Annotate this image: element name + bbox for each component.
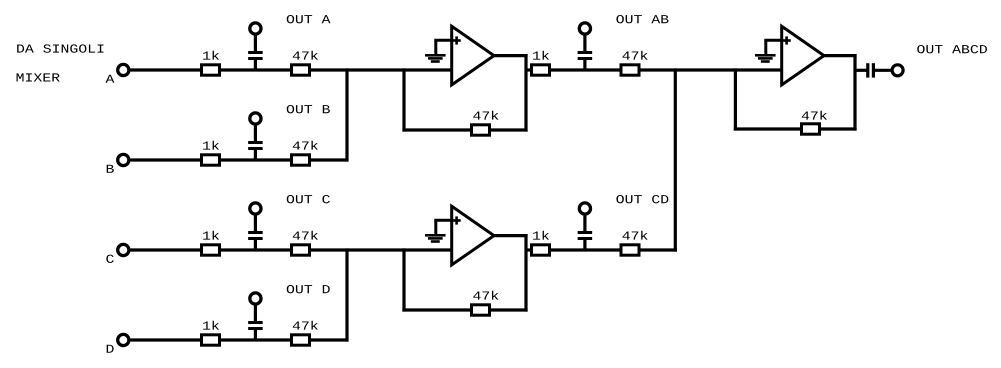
label C bbox=[106, 255, 113, 263]
value label 1k input B bbox=[203, 141, 219, 150]
wire bus node C-D bbox=[345, 248, 348, 341]
output terminal OUT B bbox=[250, 113, 261, 124]
label OUT C bbox=[287, 195, 330, 203]
resistor 1k output U1 bbox=[532, 65, 550, 75]
wire U3 feedback left vertical bbox=[734, 68, 737, 130]
label D bbox=[107, 345, 114, 353]
label OUT AB bbox=[616, 15, 668, 23]
wire U1 output vertical bbox=[524, 54, 527, 132]
output terminal OUT D bbox=[250, 293, 261, 304]
label B bbox=[107, 165, 114, 173]
resistor 47k summing D bbox=[292, 335, 310, 345]
label A bbox=[106, 75, 115, 83]
output terminal OUT ABCD bbox=[892, 65, 903, 76]
wire U1 output branch bbox=[526, 68, 532, 71]
resistor 47k mix AB bbox=[621, 65, 639, 75]
wire node B to summing bus bbox=[220, 158, 349, 161]
resistor 47k summing A bbox=[292, 65, 310, 75]
output terminal OUT AB bbox=[579, 23, 590, 34]
wire U3 output branch bbox=[855, 69, 867, 72]
capacitor OUT C bbox=[248, 214, 263, 251]
op-amp U3 bbox=[782, 26, 824, 85]
wire U1 output node bbox=[550, 68, 622, 71]
value label 1k input C bbox=[203, 231, 219, 240]
wire U2 feedback left vertical bbox=[402, 248, 405, 311]
input terminal B bbox=[118, 154, 129, 165]
label OUT ABCD bbox=[917, 45, 987, 53]
resistor 1k output U2 bbox=[532, 245, 550, 255]
wire U3 feedback bottom left bbox=[734, 127, 802, 130]
resistor 1k input A bbox=[202, 65, 220, 75]
label OUT CD bbox=[616, 195, 668, 203]
resistor 47k feedback U1 bbox=[472, 125, 490, 135]
title text MIXER bbox=[17, 73, 60, 81]
wire U3 feedback bottom right bbox=[820, 127, 857, 130]
wire OUT AB to final op-amp bbox=[639, 68, 790, 71]
wire U2 output node bbox=[550, 248, 622, 251]
resistor 1k input C bbox=[202, 245, 220, 255]
value label 47k mix AB bbox=[622, 51, 647, 60]
wire input C to resistor bbox=[130, 248, 201, 251]
value label 47k summing B bbox=[293, 141, 318, 150]
ground at U3 non-inverting input bbox=[755, 54, 776, 63]
output terminal OUT CD bbox=[579, 203, 590, 214]
wire coupling capacitor to terminal bbox=[875, 69, 892, 72]
label OUT D bbox=[287, 285, 330, 293]
wire OUT CD to bus bbox=[639, 248, 677, 251]
wire node C to op-amp input bbox=[220, 248, 461, 251]
value label 1k input A bbox=[203, 51, 219, 60]
wire U2 non-inverting input to ground bbox=[434, 220, 453, 235]
op-amp U2 plus input marker bbox=[453, 216, 461, 224]
wire U1 non-inverting input to ground bbox=[434, 40, 453, 55]
resistor 47k feedback U2 bbox=[472, 305, 490, 315]
resistor 47k summing B bbox=[292, 155, 310, 165]
value label 47k summing D bbox=[293, 321, 318, 330]
resistor 1k input D bbox=[202, 335, 220, 345]
wire U1 feedback left vertical bbox=[402, 68, 405, 131]
value label 1k output U1 bbox=[533, 51, 549, 60]
value label 47k summing C bbox=[293, 231, 318, 240]
wire node D to summing bus bbox=[220, 338, 349, 341]
wire U2 feedback bottom left bbox=[402, 308, 471, 311]
wire bus node A-B bbox=[345, 68, 348, 161]
label OUT B bbox=[287, 105, 330, 113]
input terminal C bbox=[118, 244, 129, 255]
ground at U2 non-inverting input bbox=[425, 234, 446, 243]
wire input B to resistor bbox=[130, 158, 201, 161]
title text DA SINGOLI bbox=[17, 44, 103, 52]
value label 47k feedback U1 bbox=[473, 111, 498, 120]
wire node A to op-amp input bbox=[220, 68, 461, 71]
value label 47k mix CD bbox=[622, 231, 647, 240]
wire input D to resistor bbox=[130, 338, 201, 341]
op-amp U1 plus input marker bbox=[453, 36, 461, 44]
capacitor OUT D bbox=[248, 304, 263, 341]
op-amp U3 plus input marker bbox=[783, 36, 791, 44]
wire bus node AB-CD bbox=[674, 68, 677, 251]
capacitor OUT A bbox=[248, 34, 263, 71]
wire U2 output horizontal bbox=[494, 234, 528, 237]
label OUT A bbox=[287, 15, 331, 23]
wire U3 non-inverting input to ground bbox=[764, 40, 783, 55]
capacitor OUT AB bbox=[578, 34, 593, 71]
resistor 47k feedback U3 bbox=[802, 124, 820, 134]
output terminal OUT C bbox=[250, 203, 261, 214]
wire U1 feedback bottom left bbox=[402, 128, 471, 131]
capacitor OUT CD bbox=[578, 214, 593, 251]
op-amp U1 bbox=[452, 26, 494, 85]
wire U1 feedback bottom right bbox=[490, 128, 528, 131]
output terminal OUT A bbox=[250, 23, 261, 34]
wire input A to resistor bbox=[130, 68, 201, 71]
capacitor output coupling bbox=[866, 63, 875, 77]
wire U2 feedback bottom right bbox=[490, 308, 528, 311]
capacitor OUT B bbox=[248, 124, 263, 161]
value label 47k summing A bbox=[293, 51, 318, 60]
wire U2 output branch bbox=[526, 248, 532, 251]
wire U2 output vertical bbox=[524, 234, 527, 312]
wire U1 output horizontal bbox=[494, 54, 528, 57]
value label 1k input D bbox=[203, 321, 219, 330]
wire U3 output horizontal bbox=[824, 54, 857, 57]
value label 47k feedback U2 bbox=[473, 291, 498, 300]
op-amp U2 bbox=[452, 206, 494, 265]
resistor 47k mix CD bbox=[621, 245, 639, 255]
wire U3 output vertical bbox=[853, 54, 856, 131]
input terminal D bbox=[118, 334, 129, 345]
resistor 47k summing C bbox=[292, 245, 310, 255]
value label 47k feedback U3 bbox=[802, 111, 827, 120]
ground at U1 non-inverting input bbox=[425, 54, 446, 63]
value label 1k output U2 bbox=[533, 231, 549, 240]
resistor 1k input B bbox=[202, 155, 220, 165]
input terminal A bbox=[118, 64, 129, 75]
